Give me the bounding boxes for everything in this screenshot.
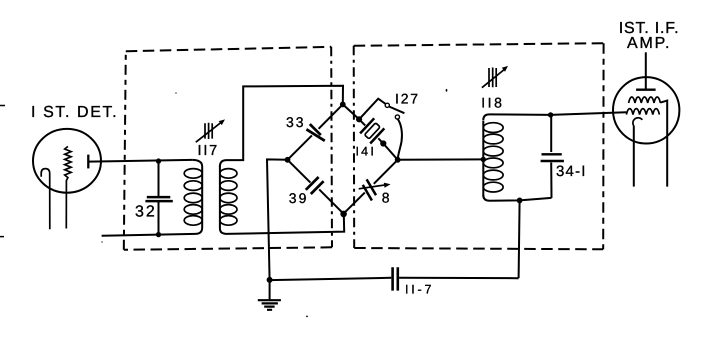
svg-text:8: 8 [382,189,390,205]
svg-text:II7: II7 [198,143,220,159]
svg-text:II-7: II-7 [405,282,434,296]
svg-text:I27: I27 [395,91,420,107]
svg-text:34-I: 34-I [556,163,587,180]
svg-text:I ST. DET.: I ST. DET. [31,104,118,121]
svg-text:I4I: I4I [356,144,377,158]
svg-text:32: 32 [135,203,157,220]
svg-text:II8: II8 [481,95,504,111]
svg-text:33: 33 [286,114,306,130]
svg-text:39: 39 [289,190,309,206]
svg-text:AMP.: AMP. [627,35,671,52]
